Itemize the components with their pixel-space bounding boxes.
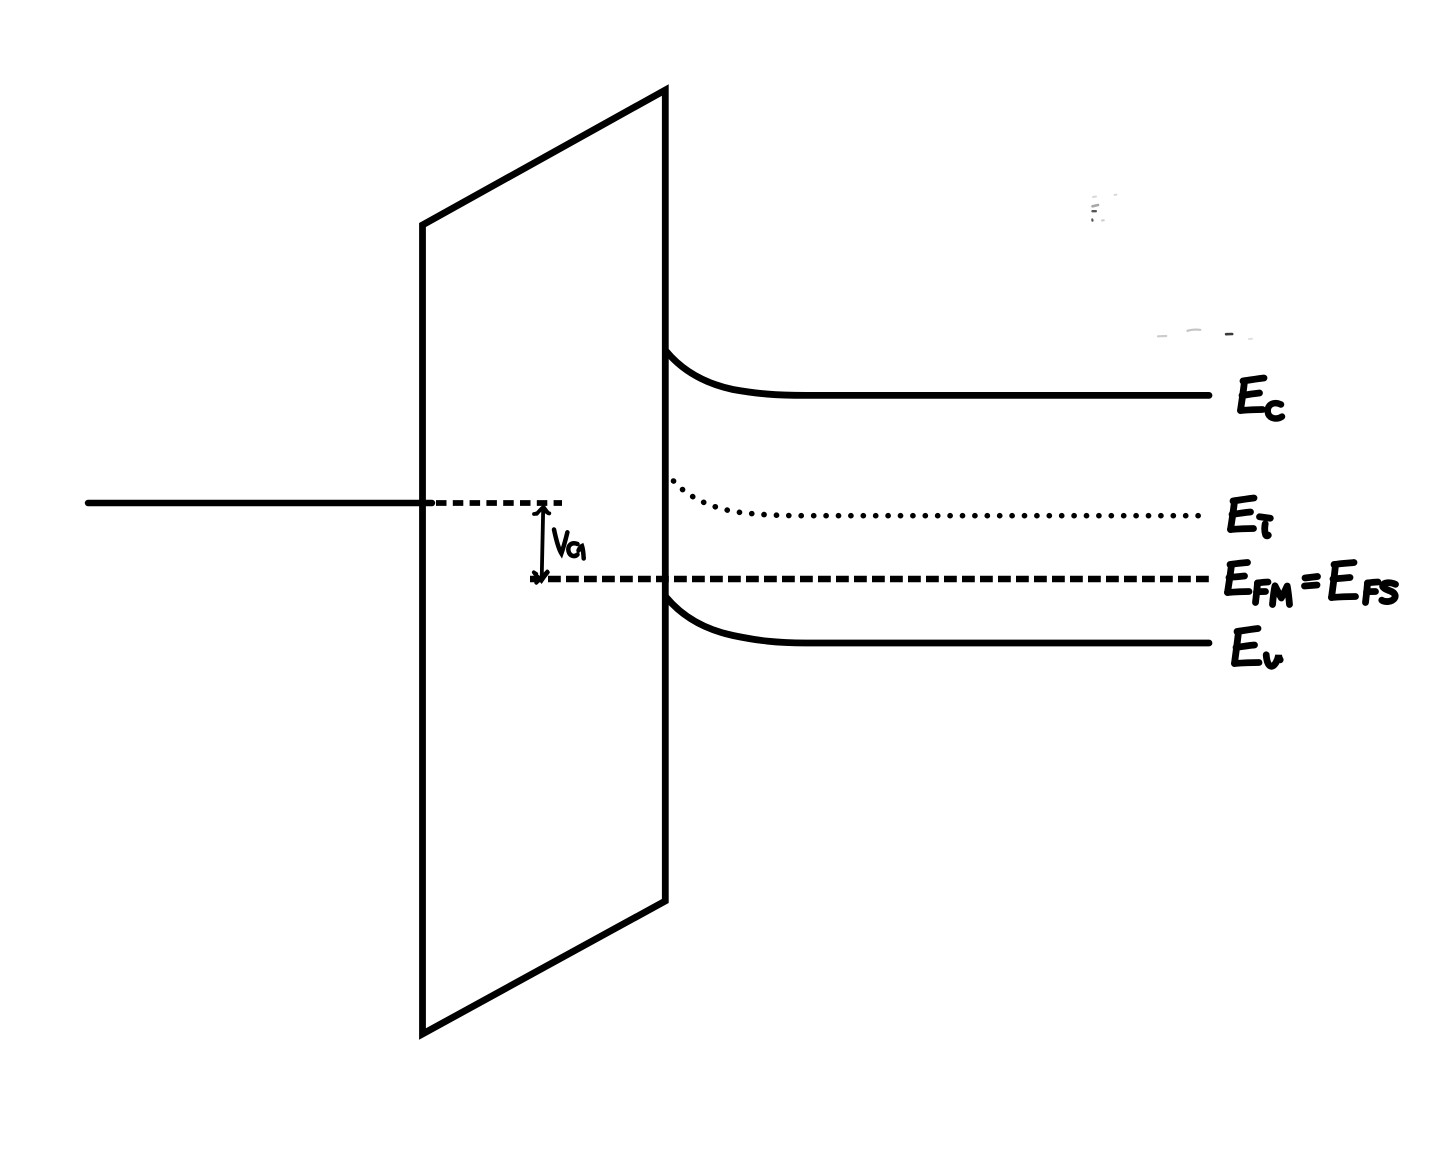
faint erased mark upper [1092,195,1116,221]
curve E_i intrinsic dotted [674,481,1211,516]
label E_FM = E_FS [1228,563,1396,605]
faint erased mark right [1158,330,1252,339]
node V arrow (double headed) [534,507,550,583]
label E_c [1241,378,1283,418]
curve E_v valence band [666,597,1209,643]
curve E_c conduction band [666,351,1209,395]
label E_v [1235,629,1281,667]
wire E_FM dashed Fermi level [530,576,1209,582]
wire metal Fermi level line [88,500,432,506]
node V_G label [554,530,584,559]
label E_i [1231,498,1271,536]
oxide barrier parallelogram [423,90,666,1034]
wire dashed metal level extension [436,500,562,506]
